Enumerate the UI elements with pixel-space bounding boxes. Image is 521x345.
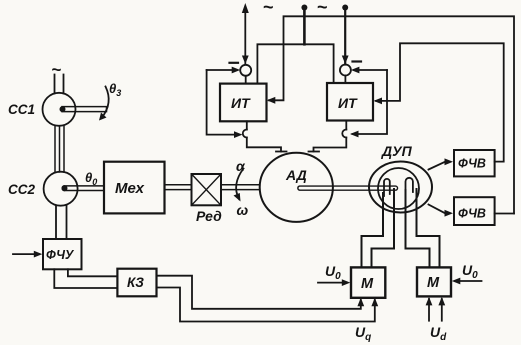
- block ФЧУ: [43, 239, 82, 269]
- block М (left): [351, 267, 385, 297]
- resolver ДУП outer: [369, 162, 432, 213]
- brush hook right: [406, 178, 413, 194]
- svg-text:ДУП: ДУП: [381, 143, 413, 159]
- arrow into S2: [351, 67, 387, 74]
- block ИТ (left) U1: [220, 84, 267, 122]
- minus sign at S2: [353, 60, 362, 62]
- three-phase wires СС1 to СС2: [55, 126, 64, 173]
- minus sign at S1: [230, 62, 239, 64]
- winding wires ДУП to М boxes: [362, 193, 384, 267]
- wire КЗ lower output to М1: [157, 288, 379, 322]
- svg-text:ФЧВ: ФЧВ: [458, 157, 486, 171]
- block Мех: [104, 162, 165, 214]
- svg-text:Мех: Мех: [115, 180, 145, 197]
- block ФЧВ (lower): [454, 197, 495, 225]
- Ud input wires to right М: [426, 297, 446, 321]
- svg-text:Ред: Ред: [196, 208, 222, 224]
- svg-text:ФЧУ: ФЧУ: [46, 248, 75, 262]
- svg-text:~: ~: [52, 60, 62, 79]
- block ИТ (right) U2: [327, 83, 373, 121]
- svg-text:α: α: [236, 158, 246, 174]
- shaft АД to ДУП: [298, 186, 398, 190]
- wire: top net from node A down left ИТ input: [269, 16, 514, 213]
- gearbox Ред: [192, 174, 222, 205]
- wire: left ИТ output with loop to АД stator: [243, 121, 287, 151]
- wire ДУП to ФЧВ2 with arrow: [429, 205, 454, 217]
- svg-text:~: ~: [317, 0, 328, 17]
- svg-text:М: М: [427, 275, 440, 291]
- arrow input to ФЧУ: [13, 251, 42, 258]
- arrow U0 into left М: [318, 279, 350, 286]
- svg-text:КЗ: КЗ: [127, 275, 144, 290]
- resolver ДУП inner: [378, 168, 419, 209]
- summing junction S2: [340, 65, 351, 84]
- svg-text:ИТ: ИТ: [338, 95, 358, 111]
- svg-text:ФЧВ: ФЧВ: [458, 207, 486, 221]
- svg-text:CC2: CC2: [8, 182, 35, 197]
- rotation arc α/ω: [234, 169, 244, 202]
- block КЗ: [117, 269, 156, 297]
- arrow into S1: [207, 67, 241, 74]
- supply terminal T3 dot: [342, 5, 349, 65]
- wires ФЧУ to КЗ: [68, 269, 118, 276]
- motor АД: [260, 153, 333, 222]
- summing junction S1: [240, 65, 251, 84]
- wires СС2 to ФЧУ: [56, 206, 67, 240]
- feedback wire S2: [353, 70, 388, 134]
- arrow U0 into right М: [452, 278, 482, 285]
- svg-text:ИТ: ИТ: [231, 95, 251, 111]
- wire: ФЧВ1 output loop to right ИТ input: [376, 43, 504, 161]
- block ФЧВ (upper): [454, 150, 495, 176]
- wire ДУП to ФЧВ1 with arrow: [429, 158, 454, 169]
- wire: right ИТ output with loop to АД stator: [309, 121, 347, 152]
- shaft Ред to АД: [221, 185, 260, 190]
- rod СС1 lever: [60, 106, 107, 112]
- supply terminal T1 arrow up: [242, 3, 249, 65]
- svg-text:АД: АД: [285, 167, 307, 183]
- shaft Мех to Ред: [165, 185, 192, 190]
- selsyn СС1: [43, 93, 76, 126]
- excitation lines above СС1: [55, 75, 64, 94]
- supply terminal T2 dot: [301, 5, 307, 45]
- θ3 rotation arc: [99, 87, 109, 121]
- svg-text:М: М: [361, 276, 374, 292]
- svg-text:~: ~: [263, 0, 274, 17]
- svg-text:CC1: CC1: [8, 102, 35, 117]
- rod СС2 to Мех: [62, 185, 105, 191]
- wire КЗ upper output to М1: [157, 276, 365, 309]
- feedback wire S1: [207, 70, 239, 135]
- wire: ФЧВ2 output to right edge: [495, 213, 514, 215]
- brush hook left: [384, 179, 390, 196]
- svg-text:ω: ω: [237, 202, 249, 218]
- selsyn СС2: [44, 172, 78, 206]
- block М (right): [417, 267, 451, 296]
- wire: T2 bus to both ИТ tops: [257, 44, 333, 83]
